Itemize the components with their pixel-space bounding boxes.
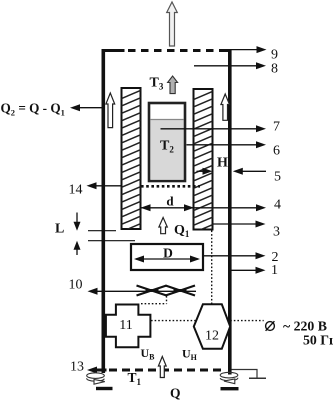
svg-text:d: d bbox=[166, 194, 174, 209]
svg-text:~ 220 В: ~ 220 В bbox=[283, 319, 327, 334]
svg-text:3: 3 bbox=[273, 225, 280, 240]
svg-text:6: 6 bbox=[273, 144, 280, 159]
svg-text:5: 5 bbox=[274, 170, 281, 185]
svg-text:8: 8 bbox=[271, 61, 278, 76]
svg-text:11: 11 bbox=[119, 318, 132, 333]
svg-text:H: H bbox=[217, 156, 228, 171]
svg-text:1: 1 bbox=[271, 263, 278, 278]
svg-text:14: 14 bbox=[69, 183, 83, 198]
svg-text:Q2 = Q - Q1: Q2 = Q - Q1 bbox=[1, 101, 65, 118]
svg-text:D: D bbox=[163, 246, 173, 261]
svg-text:12: 12 bbox=[205, 329, 219, 344]
svg-text:L: L bbox=[55, 222, 64, 237]
svg-text:Q: Q bbox=[170, 386, 181, 400]
svg-text:10: 10 bbox=[69, 278, 83, 293]
svg-text:4: 4 bbox=[274, 198, 281, 213]
svg-text:7: 7 bbox=[273, 120, 280, 135]
svg-text:50 Гц: 50 Гц bbox=[303, 333, 333, 348]
svg-text:13: 13 bbox=[70, 360, 84, 375]
